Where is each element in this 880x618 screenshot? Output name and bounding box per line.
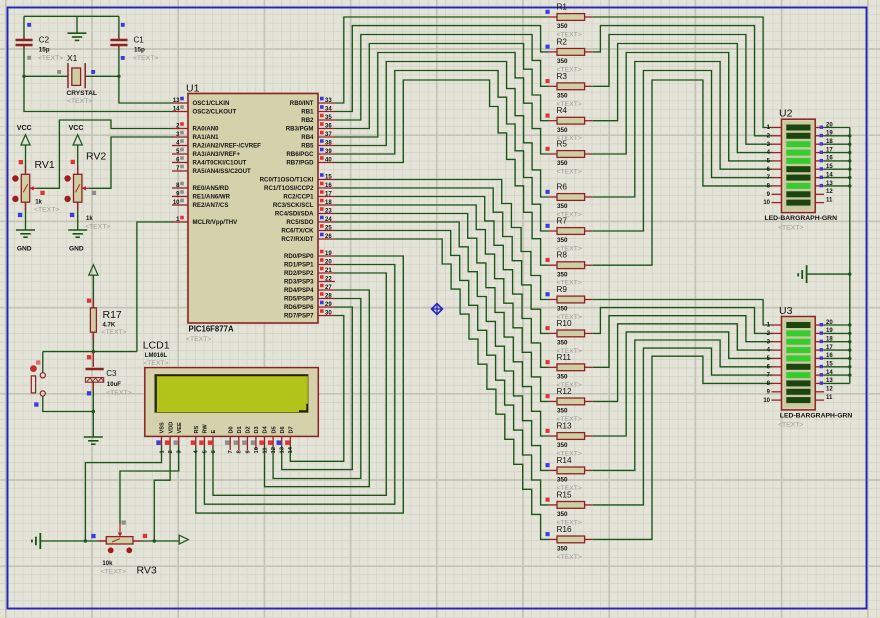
svg-text:RC1/T1OSI/CCP2: RC1/T1OSI/CCP2	[264, 185, 314, 192]
svg-text:21: 21	[325, 268, 332, 274]
RV3 wiper arrow	[119, 524, 121, 534]
svg-text:33: 33	[325, 98, 332, 104]
wire U1 RD7 to LCD D7	[290, 316, 344, 462]
svg-text:10: 10	[763, 200, 770, 206]
U1 pin 5 RA3/AN3/VREF+	[172, 153, 188, 155]
node state RV1 wiper	[40, 191, 44, 195]
U3 pin 18	[815, 341, 824, 343]
svg-text:10uF: 10uF	[107, 382, 121, 388]
svg-text:RD5/PSP5: RD5/PSP5	[284, 296, 314, 303]
svg-text:RA2/AN2/VREF-/CVREF: RA2/AN2/VREF-/CVREF	[193, 143, 262, 150]
U3 pin 16	[815, 357, 824, 359]
capacitor C2	[16, 36, 33, 49]
svg-text:350: 350	[557, 127, 568, 134]
svg-text:VCC: VCC	[17, 125, 32, 132]
wire U3 pin17 to bus	[824, 349, 850, 351]
svg-text:U2: U2	[779, 108, 793, 120]
svg-text:R14: R14	[557, 456, 572, 465]
wire RV2 wiper to U1 RA1	[89, 137, 173, 188]
svg-text:RB2: RB2	[301, 117, 314, 124]
wire U1 RD0 to LCD RS	[196, 256, 403, 513]
junction bus	[848, 159, 851, 162]
node state C1 top	[121, 23, 125, 27]
wire U2 pin20 to bus	[824, 127, 850, 129]
U1 pin 36 RB3/PGM	[318, 128, 335, 130]
svg-text:20: 20	[325, 259, 332, 265]
resistor R14	[549, 469, 557, 471]
wire power to R17 top	[92, 275, 94, 308]
U1 pin 13 OSC1/CLKIN	[172, 102, 188, 104]
svg-text:RA1/AN1: RA1/AN1	[193, 134, 220, 141]
U2 segment 6	[786, 166, 810, 172]
U1 pin 3 RA1/AN1	[172, 136, 188, 138]
U3 segment 2	[786, 330, 810, 336]
svg-text:11: 11	[262, 447, 268, 454]
svg-text:RC4/SDI/SDA: RC4/SDI/SDA	[275, 211, 314, 218]
wire C2 top to C1 top	[24, 15, 119, 17]
U3 pin 2	[772, 332, 782, 334]
svg-text:15: 15	[325, 174, 332, 180]
svg-text:R6: R6	[557, 183, 568, 192]
wire U2 pin16 to bus	[824, 160, 850, 162]
crystal X1	[68, 63, 85, 88]
svg-text:350: 350	[557, 374, 568, 381]
U1 pin 10 RE2/AN7/CS	[172, 204, 188, 206]
wire U1 RB1 to R2	[335, 26, 549, 112]
U3 segment 10	[786, 397, 810, 403]
svg-text:D2: D2	[246, 426, 252, 433]
wire LCD VSS to GND rail	[85, 446, 161, 541]
junction bus	[848, 365, 851, 368]
svg-text:R1: R1	[557, 3, 568, 12]
junction X1 left	[22, 75, 25, 78]
svg-text:RC5/SDO: RC5/SDO	[286, 219, 313, 226]
wire R6 to U2 pin6	[593, 62, 772, 198]
wire U1 RC1 to R10	[335, 188, 549, 333]
svg-text:15p: 15p	[134, 47, 145, 54]
svg-text:13: 13	[826, 181, 833, 187]
svg-text:R11: R11	[557, 353, 572, 362]
resistor R10	[549, 332, 557, 334]
svg-text:X1: X1	[67, 53, 78, 63]
svg-text:R2: R2	[557, 37, 568, 46]
U1 pin 39 RB6/PGC	[318, 153, 335, 155]
svg-text:15: 15	[826, 164, 833, 170]
U1 pin 30 RD7/PSP7	[318, 315, 335, 317]
U1 pin 16 RC1/T1OSI/CCP2	[318, 187, 335, 189]
svg-text:E: E	[211, 430, 217, 434]
resistor R1	[549, 16, 557, 18]
svg-text:R16: R16	[557, 525, 572, 534]
wire to ground	[92, 412, 94, 438]
svg-text:RB4: RB4	[301, 134, 314, 141]
U2 pin 4	[772, 152, 782, 154]
wire U1 RB0 to R1	[335, 17, 549, 103]
resistor R15	[549, 504, 557, 506]
wire RV1 bottom to GND	[25, 202, 27, 230]
wire U3 pin16 to bus	[824, 357, 850, 359]
svg-text:17: 17	[325, 191, 332, 197]
U2 pin 14	[815, 177, 824, 179]
LED bargraph U3	[782, 317, 816, 410]
U3 pin 6	[772, 366, 782, 368]
U1 pin 15 RC0/T1OSO/T1CKI	[318, 179, 335, 181]
wire C2 top lead	[23, 16, 25, 39]
lead C3 bottom	[92, 382, 94, 391]
node state C2 bottom	[27, 56, 31, 60]
svg-text:PIC16F877A: PIC16F877A	[189, 325, 234, 334]
wire ground to RV3 left	[40, 540, 106, 542]
wire junction to C3 top	[92, 352, 94, 367]
U2 segment 7	[786, 175, 810, 181]
wire button bottom	[43, 396, 94, 411]
junction bus cell	[848, 272, 851, 275]
lead RV2 bottom	[77, 202, 79, 211]
U1 pin 6 RA4/T0CKI/C1OUT	[172, 162, 188, 164]
svg-text:18: 18	[325, 200, 332, 206]
resistor R9	[549, 299, 557, 301]
svg-text:7: 7	[228, 450, 234, 453]
U3 pin 1	[772, 324, 782, 326]
node state RV3 left	[91, 534, 95, 538]
lead R17 top	[92, 299, 94, 308]
svg-text:1k: 1k	[86, 216, 93, 222]
svg-text:R7: R7	[557, 217, 568, 226]
U3 pin 11	[815, 399, 824, 401]
junction X1 right	[117, 75, 120, 78]
U1 pin 7 RA5/AN4/SS/C2OUT	[172, 170, 188, 172]
resistor R17	[90, 308, 96, 332]
wire U3 pin19 to bus	[824, 332, 850, 334]
svg-text:<TEXT>: <TEXT>	[34, 207, 59, 214]
svg-text:<TEXT>: <TEXT>	[67, 98, 92, 105]
svg-text:17: 17	[826, 345, 833, 351]
wire VCC to RV1 top	[25, 145, 27, 174]
svg-text:350: 350	[557, 203, 568, 210]
wire R9 to U3 pin1	[593, 300, 772, 326]
svg-text:RV3: RV3	[137, 565, 157, 577]
U2 segment 5	[786, 158, 810, 164]
svg-text:<TEXT>: <TEXT>	[186, 336, 211, 343]
U2 pin 1	[772, 127, 782, 129]
U1 pin 18 RC3/SCK/SCL	[318, 204, 335, 206]
wire U3 pin18 to bus	[824, 341, 850, 343]
node state R17 top	[87, 299, 91, 303]
svg-text:10: 10	[254, 447, 260, 453]
svg-text:RC6/TX/CK: RC6/TX/CK	[281, 228, 314, 235]
svg-text:D4: D4	[263, 425, 269, 433]
U1 pin 17 RC2/CCP1	[318, 196, 335, 198]
U2 pin 15	[815, 168, 824, 170]
U2 pin 11	[815, 202, 824, 204]
svg-text:350: 350	[557, 340, 568, 347]
svg-text:LED-BARGRAPH-GRN: LED-BARGRAPH-GRN	[765, 215, 838, 222]
svg-text:RB0/INT: RB0/INT	[290, 100, 314, 107]
U1 pin 29 RD6/PSP6	[318, 306, 335, 308]
svg-text:D7: D7	[289, 426, 295, 433]
svg-text:R17: R17	[103, 309, 122, 321]
svg-text:<TEXT>: <TEXT>	[101, 329, 126, 336]
U1 pin 1 MCLR/Vpp/THV	[172, 221, 188, 223]
U3 pin 19	[815, 332, 824, 334]
svg-text:LCD1: LCD1	[143, 340, 170, 352]
svg-text:<TEXT>: <TEXT>	[85, 224, 110, 231]
wire U3 pin20 to bus	[824, 324, 850, 326]
svg-text:R8: R8	[557, 251, 568, 260]
U1 pin 34 RB1	[318, 111, 335, 113]
svg-text:12: 12	[826, 189, 833, 195]
power terminal VCC RV2	[73, 135, 82, 145]
svg-text:38: 38	[325, 140, 332, 146]
U3 segment 6	[786, 364, 810, 370]
wire U3 pin14 to bus	[824, 374, 850, 376]
wire U3 pin13 to bus	[824, 382, 850, 384]
svg-text:D3: D3	[254, 426, 260, 433]
svg-text:350: 350	[557, 511, 568, 518]
origin cursor marker	[432, 304, 443, 315]
svg-text:27: 27	[325, 285, 332, 291]
svg-text:28: 28	[325, 293, 332, 299]
svg-text:22: 22	[325, 276, 332, 282]
U1 pin 27 RD4/PSP4	[318, 289, 335, 291]
potentiometer RV1	[12, 174, 37, 202]
wire R15 to U3 pin7	[593, 348, 772, 505]
wire RV1 wiper to U1 RA0	[37, 120, 174, 188]
wire U2 pin15 to bus	[824, 168, 850, 170]
svg-text:RC0/T1OSO/T1CKI: RC0/T1OSO/T1CKI	[260, 177, 314, 184]
resistor R5	[549, 153, 557, 155]
node state RV2 top	[71, 160, 75, 164]
svg-text:VCC: VCC	[69, 125, 84, 132]
U3 pin 17	[815, 349, 824, 351]
resistor R8	[549, 264, 557, 266]
U1 pin 22 RD3/PSP3	[318, 281, 335, 283]
svg-text:<TEXT>: <TEXT>	[106, 389, 131, 396]
svg-text:350: 350	[557, 93, 568, 100]
ground terminal RV3	[32, 533, 40, 549]
svg-text:37: 37	[325, 132, 332, 138]
node state button bottom	[34, 402, 38, 406]
svg-text:<TEXT>: <TEXT>	[557, 169, 582, 176]
svg-text:14: 14	[826, 370, 833, 376]
U2 pin 5	[772, 160, 782, 162]
wire R10 to U3 pin2	[593, 308, 772, 334]
resistor R2	[549, 51, 557, 53]
ground crystal top	[68, 33, 87, 40]
U1 pin 19 RD0/PSP0	[318, 255, 335, 257]
U2 segment 1	[786, 125, 810, 131]
svg-text:R3: R3	[557, 72, 568, 81]
wire C1 top lead	[118, 16, 120, 39]
wire U2 pin18 to bus	[824, 143, 850, 145]
ground terminal right	[798, 265, 806, 283]
svg-text:13: 13	[280, 446, 286, 453]
svg-text:VSS: VSS	[160, 422, 166, 433]
U2 pin 2	[772, 135, 782, 137]
capacitor C1	[110, 36, 127, 49]
svg-text:R13: R13	[557, 422, 572, 431]
svg-text:25: 25	[325, 225, 332, 231]
svg-text:19: 19	[826, 328, 833, 334]
wire R4 to U2 pin4	[593, 44, 772, 153]
wire C3 bottom	[92, 383, 94, 412]
svg-text:<TEXT>: <TEXT>	[778, 422, 803, 429]
U2 pin 9	[772, 193, 782, 195]
svg-text:OSC1/CLKIN: OSC1/CLKIN	[193, 100, 230, 107]
junction bus	[848, 348, 851, 351]
U2 pin 12	[815, 193, 824, 195]
junction bus	[848, 323, 851, 326]
U1 pin 37 RB4	[318, 136, 335, 138]
svg-text:C2: C2	[39, 36, 50, 45]
svg-text:15: 15	[826, 362, 833, 368]
svg-text:<TEXT>: <TEXT>	[557, 554, 582, 561]
resistor R3	[549, 85, 557, 87]
junction VSS	[84, 539, 87, 542]
junction bus	[848, 143, 851, 146]
svg-text:40: 40	[325, 157, 332, 163]
svg-text:RD4/PSP4: RD4/PSP4	[284, 287, 314, 294]
U3 pin 12	[815, 391, 824, 393]
node state C3 top	[87, 355, 91, 359]
U2 pin 8	[772, 185, 782, 187]
U1 pin 21 RD2/PSP2	[318, 272, 335, 274]
U2 pin 19	[815, 135, 824, 137]
wire R5 to U2 pin5	[593, 53, 772, 161]
U3 segment 7	[786, 372, 810, 378]
svg-text:<TEXT>: <TEXT>	[778, 225, 803, 232]
wire U1 RC3 to R12	[335, 205, 549, 401]
resistor R4	[549, 120, 557, 122]
svg-text:<TEXT>: <TEXT>	[38, 55, 63, 62]
wire C2 bottom to X1 left	[24, 45, 68, 77]
svg-text:LED-BARGRAPH-GRN: LED-BARGRAPH-GRN	[780, 412, 853, 419]
lead RV1 bottom	[25, 202, 27, 211]
wire ground drop	[76, 16, 78, 33]
node state X1 left	[57, 70, 61, 74]
junction bus	[848, 168, 851, 171]
resistor R7	[549, 230, 557, 232]
svg-text:19: 19	[325, 251, 332, 257]
svg-text:RC7/RX/DT: RC7/RX/DT	[281, 236, 313, 243]
junction bus	[848, 340, 851, 343]
wire U1 RC5 to R14	[335, 222, 549, 470]
lead RV2 top	[77, 166, 79, 175]
svg-text:RD0/PSP0: RD0/PSP0	[284, 253, 314, 260]
node state RV2 bottom	[70, 213, 74, 217]
resistor R13	[549, 435, 557, 437]
U3 segment 9	[786, 389, 810, 395]
wire U2 pin19 to bus	[824, 135, 850, 137]
LCD LCD1 LM016L	[145, 368, 318, 437]
node state RV3 wiper	[122, 520, 126, 524]
U3 segment 4	[786, 347, 810, 353]
wire RV3 right to power terminal	[133, 540, 179, 542]
svg-text:RA5/AN4/SS/C2OUT: RA5/AN4/SS/C2OUT	[193, 168, 252, 175]
svg-text:350: 350	[557, 58, 568, 65]
wire U2 pin14 to bus	[824, 177, 850, 179]
U3 segment 1	[786, 322, 810, 328]
U1 pin 9 RE1/AN6/WR	[172, 196, 188, 198]
U3 pin 10	[772, 399, 782, 401]
junction bus	[848, 176, 851, 179]
svg-text:350: 350	[557, 477, 568, 484]
U2 pin 13	[815, 185, 824, 187]
svg-text:11: 11	[826, 395, 833, 401]
svg-text:D5: D5	[271, 426, 277, 433]
svg-text:RE2/AN7/CS: RE2/AN7/CS	[193, 202, 229, 209]
svg-text:RB6/PGC: RB6/PGC	[286, 151, 314, 158]
wire U3 pin15 to bus	[824, 366, 850, 368]
power terminal VCC RV1	[21, 135, 30, 145]
svg-text:350: 350	[557, 442, 568, 449]
U3 pin 8	[772, 382, 782, 384]
svg-text:13: 13	[826, 378, 833, 384]
svg-text:<TEXT>: <TEXT>	[101, 569, 126, 576]
node state button	[36, 360, 40, 364]
svg-text:MCLR/Vpp/THV: MCLR/Vpp/THV	[193, 219, 239, 226]
U3 pin 5	[772, 357, 782, 359]
svg-text:35: 35	[325, 115, 332, 121]
svg-text:U3: U3	[779, 305, 793, 317]
node state C1 bottom	[121, 56, 125, 60]
svg-text:350: 350	[557, 306, 568, 313]
svg-text:16: 16	[325, 183, 332, 189]
svg-text:VEE: VEE	[177, 422, 183, 433]
U1 pin 28 RD5/PSP5	[318, 298, 335, 300]
svg-text:R9: R9	[557, 285, 568, 294]
U3 segment 5	[786, 355, 810, 361]
svg-text:RV1: RV1	[35, 159, 55, 171]
node state RV3 right	[143, 534, 147, 538]
svg-text:12: 12	[271, 447, 277, 453]
svg-text:<TEXT>: <TEXT>	[143, 360, 168, 367]
junction bus	[848, 332, 851, 335]
svg-text:OSC2/CLKOUT: OSC2/CLKOUT	[193, 109, 237, 116]
wire R11 to U3 pin3	[593, 316, 772, 368]
svg-text:RD3/PSP3: RD3/PSP3	[284, 279, 314, 286]
svg-text:350: 350	[557, 546, 568, 553]
wire button top	[42, 352, 44, 373]
svg-text:GND: GND	[17, 246, 32, 253]
wire U1 RC0 to R9	[335, 180, 549, 300]
U3 pin 9	[772, 391, 782, 393]
svg-text:20: 20	[826, 320, 833, 326]
wire U1 RD2 to LCD E	[213, 273, 386, 495]
svg-text:C3: C3	[106, 369, 117, 378]
node state C2 top	[27, 23, 31, 27]
svg-text:RC3/SCK/SCL: RC3/SCK/SCL	[273, 202, 314, 209]
svg-text:34: 34	[325, 106, 332, 112]
wire LCD VEE to RV3 wiper	[120, 446, 179, 524]
svg-text:RW: RW	[203, 424, 209, 434]
svg-text:12: 12	[826, 387, 833, 393]
svg-text:24: 24	[325, 217, 332, 223]
U3 pin 4	[772, 349, 782, 351]
svg-text:RD2/PSP2: RD2/PSP2	[284, 270, 314, 277]
wire U1 RD1 to LCD RW	[204, 265, 394, 505]
svg-text:39: 39	[325, 149, 332, 155]
U1 pin 20 RD1/PSP1	[318, 264, 335, 266]
power terminal R17 top	[89, 265, 98, 275]
wire U1 RC4 to R13	[335, 214, 549, 437]
resistor R11	[549, 366, 557, 368]
U2 pin 7	[772, 177, 782, 179]
wire U2 pin17 to bus	[824, 152, 850, 154]
resistor R16	[549, 538, 557, 540]
wire U1 RD6 to LCD D6	[282, 307, 353, 470]
svg-text:14: 14	[288, 446, 294, 453]
